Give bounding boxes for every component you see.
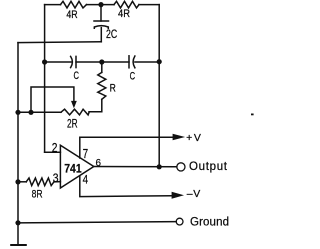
capacitor C (left) straight plate — [75, 56, 77, 67]
wire 2R left terminal to ground rail — [18, 111, 61, 113]
svg-text:Ground: Ground — [190, 217, 229, 229]
junction dot top (4R/4R/2C) — [98, 2, 103, 7]
op-amp U1 triangle — [60, 145, 93, 188]
junction dot rail/2R wire — [15, 110, 20, 115]
wire top-right segment — [139, 4, 159, 6]
capacitor 2C lead bottom — [100, 28, 102, 42]
wire 2C to ground rail — [18, 41, 101, 44]
potentiometer wiper arrowhead — [71, 101, 77, 108]
capacitor C (left) curved plate — [71, 56, 73, 67]
svg-text:Output: Output — [189, 161, 228, 173]
resistor 8R lead left — [18, 181, 26, 183]
resistor R body — [98, 72, 106, 99]
svg-text:741: 741 — [64, 161, 82, 175]
junction dot rail/8R — [15, 179, 20, 184]
-V arrowhead — [172, 192, 184, 199]
svg-text:4R: 4R — [118, 8, 130, 20]
svg-text:4R: 4R — [66, 9, 77, 21]
wire pin 7 to +V — [80, 137, 174, 158]
capacitor C (right) curved plate — [133, 56, 135, 68]
svg-text:C: C — [130, 70, 136, 82]
output terminal circle — [177, 163, 185, 171]
junction dot output/rail — [157, 164, 162, 169]
svg-text:2: 2 — [52, 140, 58, 155]
svg-text:3: 3 — [53, 171, 59, 185]
resistor 8R body — [26, 178, 54, 186]
capacitor 2C bottom plate — [94, 26, 108, 29]
wire between 4R resistors — [87, 4, 115, 6]
svg-text:C: C — [74, 70, 80, 82]
svg-text:8R: 8R — [32, 189, 43, 201]
capacitor 2C lead top — [100, 5, 102, 21]
resistor 4R (left) — [61, 1, 87, 8]
speck — [251, 114, 254, 116]
wire pin 4 to -V — [80, 176, 172, 197]
svg-text:–V: –V — [187, 188, 201, 200]
wire middle right — [135, 61, 159, 63]
svg-text:2C: 2C — [106, 29, 117, 41]
svg-text:2R: 2R — [67, 118, 78, 130]
junction dot C-C middle — [99, 59, 104, 64]
wire middle center — [76, 61, 129, 63]
resistor 4R (right) — [114, 1, 139, 8]
wire pin 6 to output — [94, 166, 177, 168]
potentiometer wiper arrow line — [31, 87, 74, 112]
svg-text:6: 6 — [96, 157, 102, 169]
ground terminal circle — [176, 218, 183, 225]
svg-text:+V: +V — [186, 132, 201, 144]
wire left feedback vertical — [44, 5, 46, 153]
junction dot rail/ground line — [15, 220, 20, 225]
capacitor 2C top plate — [94, 20, 109, 22]
svg-text:R: R — [110, 83, 116, 95]
resistor R lead bottom — [89, 99, 102, 112]
potentiometer 2R body — [61, 109, 89, 115]
junction dot wiper/2R wire — [28, 110, 33, 115]
wire left ground rail — [17, 43, 19, 244]
junction node A (feedback, C-C left) — [42, 59, 47, 64]
wire ground line — [18, 222, 176, 223]
wire right rail — [158, 5, 160, 167]
wire top-left segment — [45, 4, 61, 6]
wire middle left (node A to C) — [45, 61, 71, 63]
junction dot C-C right on rail — [157, 59, 162, 64]
+V arrowhead — [173, 134, 186, 140]
capacitor C (right) straight plate — [128, 56, 130, 68]
resistor R lead top — [101, 62, 103, 72]
resistor 8R lead right (pin 3) — [54, 181, 60, 183]
svg-text:7: 7 — [83, 147, 89, 161]
svg-text:4: 4 — [83, 175, 89, 187]
ground symbol — [11, 244, 26, 246]
wire pin2 horizontal — [45, 151, 61, 153]
